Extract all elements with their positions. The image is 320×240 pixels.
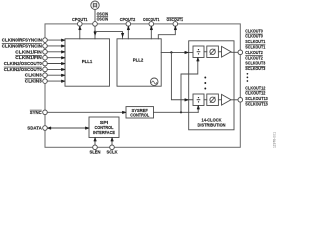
wire CLKIN2 to PLL1 — [47, 62, 65, 64]
label CLKOUT0B overlined — [245, 34, 263, 39]
wire CLKIN0B to PLL1 — [47, 45, 65, 47]
svg-text:OSCOUT1: OSCOUT1 — [143, 17, 160, 22]
wire OSCOUT1B from PLL2 — [158, 26, 176, 39]
pin CLKIN1/FIN — [43, 50, 48, 55]
driver A1 triangle — [222, 94, 232, 105]
PLL2 U-PLL2 box — [117, 39, 161, 86]
pin SYNC — [43, 110, 48, 115]
node PLL2 out junction — [170, 51, 172, 53]
svg-text:CONTROL: CONTROL — [130, 113, 149, 118]
wire sysref to upper divider — [181, 58, 199, 113]
pin CLKIN2/OSCOUT0 — [43, 61, 48, 66]
pin CLKIN3 — [43, 73, 48, 78]
svg-text:CLKOUT0: CLKOUT0 — [245, 28, 263, 33]
label CLKIN1/FINB overlined — [15, 55, 42, 60]
svg-text:CLKOUT12: CLKOUT12 — [245, 85, 265, 90]
svg-text:SYNC: SYNC — [30, 110, 43, 115]
pin OSCOUT1B — [173, 22, 178, 27]
wire SYNC to SYSREF control — [47, 111, 126, 113]
pin CLKIN0/RFSYNCIN — [43, 38, 48, 43]
svg-text:CLKIN1/FIN: CLKIN1/FIN — [15, 49, 42, 54]
pin CLKIN3B — [43, 79, 48, 84]
SYSREF CONTROL label — [130, 108, 149, 118]
14-clock distribution block — [189, 41, 234, 130]
label CLKOUT12B overlined — [245, 91, 265, 96]
14-CLOCK DISTRIBUTION label — [198, 118, 226, 128]
svg-text:PLL2: PLL2 — [133, 58, 144, 63]
wire PLL2 out to lower divider — [171, 52, 193, 101]
phase adjust P1 symbol — [210, 97, 215, 102]
svg-text:CLKOUT2: CLKOUT2 — [245, 50, 263, 55]
wire CPOUT1 from PLL1 — [79, 26, 81, 39]
divider D0 box — [193, 46, 204, 58]
wire crystal to OSCIN pin — [94, 9, 96, 21]
pin CPOUT1 — [78, 22, 83, 27]
wire PLL2 out to upper divider — [161, 51, 193, 53]
phase adjust P1 box — [207, 94, 219, 106]
label SYNCB overlined — [30, 110, 43, 115]
svg-text:SCLKOUT1: SCLKOUT1 — [245, 45, 265, 50]
wire phase P0 to driver A0 — [218, 51, 221, 53]
svg-text:CLKOUT0: CLKOUT0 — [245, 34, 263, 39]
phase adjust P0 box — [207, 46, 219, 58]
wire OSCOUT1 from PLL2 — [150, 26, 152, 39]
svg-text:CLKOUT2: CLKOUT2 — [245, 55, 263, 60]
phase adjust P0 symbol — [210, 49, 215, 54]
svg-text:CLKIN0/RFSYNCIN: CLKIN0/RFSYNCIN — [2, 43, 42, 48]
wire SYSREF control to distribution — [154, 111, 199, 113]
label CLKIN3B overlined — [25, 79, 42, 84]
chip outer border — [45, 24, 240, 147]
wire sysref to lower divider — [197, 106, 199, 113]
pin CLKIN0/RFSYNCINB — [43, 44, 48, 49]
node OSCIN branch upper — [94, 31, 96, 33]
svg-text:OSCIN: OSCIN — [97, 16, 109, 21]
svg-text:CPOUT1: CPOUT1 — [72, 17, 88, 22]
svg-text:11976-001: 11976-001 — [273, 132, 277, 148]
pin SLEN — [93, 145, 98, 150]
svg-text:SCLKOUT3: SCLKOUT3 — [245, 66, 265, 71]
wire OSCIN into PLL1 — [94, 26, 96, 39]
pin OSCOUT1 — [149, 22, 154, 27]
wire divider D0 to phase P0 — [204, 51, 207, 53]
wire OSCIN to PLL2 — [95, 32, 124, 39]
pin SCLK — [110, 145, 115, 150]
svg-text:OSCOUT1: OSCOUT1 — [167, 17, 184, 22]
svg-text:PLL1: PLL1 — [82, 59, 93, 64]
output ellipsis dots — [247, 73, 249, 82]
svg-text:SDATA: SDATA — [27, 126, 42, 131]
wire CLKIN0 to PLL1 — [47, 39, 65, 41]
pin CLKOUT lower — [238, 98, 243, 103]
pin OSCIN — [93, 22, 98, 27]
divider D1 symbol — [197, 97, 201, 103]
svg-text:CLKIN0/RFSYNCIN: CLKIN0/RFSYNCIN — [2, 38, 42, 43]
svg-text:CLKIN1/FIN: CLKIN1/FIN — [15, 55, 42, 60]
divider D1 box — [193, 94, 204, 106]
crystal Y1 symbol — [91, 1, 99, 9]
svg-text:SCLKOUT3: SCLKOUT3 — [245, 61, 265, 66]
SPI control interface block — [89, 117, 119, 138]
wire CLKIN3 to PLL1 — [47, 74, 65, 76]
node SYSREF branch junction — [180, 111, 182, 113]
wire SDATA to SPI (bidirectional) — [47, 127, 89, 129]
channel ellipsis dots — [204, 77, 206, 90]
PLL1 U-PLL1 box — [65, 39, 110, 86]
SPI CONTROL INTERFACE label — [93, 120, 115, 135]
svg-text:SCLKOUT13: SCLKOUT13 — [245, 96, 268, 101]
svg-text:CLKIN2/OSCOUT0: CLKIN2/OSCOUT0 — [4, 61, 42, 66]
pin SDATA — [43, 126, 48, 131]
svg-text:CLKIN3: CLKIN3 — [25, 79, 42, 84]
label CLKOUT2B overlined — [245, 55, 263, 60]
wire SCLK to SPI — [111, 138, 113, 146]
svg-text:CLKOUT12: CLKOUT12 — [245, 91, 265, 96]
wire driver A0 to CLKOUT pins — [231, 51, 238, 53]
svg-text:INTERFACE: INTERFACE — [93, 130, 115, 135]
svg-text:SLEN: SLEN — [90, 150, 101, 155]
wire CLKIN1 to PLL1 — [47, 51, 65, 53]
svg-text:CLKIN2/OSCOUT0: CLKIN2/OSCOUT0 — [4, 67, 42, 72]
svg-text:SCLK: SCLK — [107, 150, 119, 155]
wire CPOUT2 from PLL2 — [127, 26, 129, 39]
VCO oscillator symbol in PLL2 — [150, 78, 158, 86]
wire CLKIN3B to PLL1 — [47, 80, 65, 82]
wire divider D1 to phase P1 — [204, 99, 207, 101]
SYSREF control block — [126, 107, 154, 118]
wire phase P1 to driver A1 — [218, 99, 221, 101]
label SCLKOUT1B overlined — [245, 45, 265, 50]
wire CLKIN1B to PLL1 — [47, 57, 65, 59]
svg-text:SCLKOUT1: SCLKOUT1 — [245, 39, 265, 44]
label SCLKOUT13B overlined — [245, 102, 268, 107]
label CLKIN0/RFSYNCINB overlined — [2, 43, 42, 48]
driver A0 triangle — [222, 46, 232, 57]
pin CLKOUT upper — [238, 50, 243, 55]
wire CLKIN2B to PLL1 — [47, 68, 65, 70]
label CLKIN2/OSCOUT0B overlined — [4, 67, 42, 72]
svg-text:CPOUT2: CPOUT2 — [120, 17, 136, 22]
pin CLKIN2/OSCOUT0B — [43, 67, 48, 72]
wire driver A1 to CLKOUT pins — [231, 99, 238, 101]
svg-text:CLKIN3: CLKIN3 — [25, 73, 42, 78]
divider D0 symbol — [197, 49, 201, 55]
pin CPOUT2 — [126, 22, 131, 27]
wire SLEN to SPI — [94, 138, 96, 146]
svg-text:SCLKOUT13: SCLKOUT13 — [245, 102, 268, 107]
label OSCINB overlined — [97, 16, 109, 21]
label OSCOUT1B overlined — [167, 17, 184, 22]
pin CLKIN1/FINB — [43, 55, 48, 60]
svg-text:DISTRIBUTION: DISTRIBUTION — [198, 123, 226, 128]
label SCLKOUT3B overlined — [245, 66, 265, 71]
